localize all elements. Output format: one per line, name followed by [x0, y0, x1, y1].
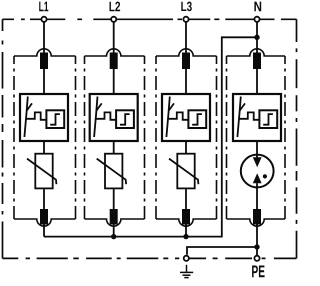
- gas discharge tube N-PE circle: [241, 155, 274, 188]
- module N box right side: [284, 56, 286, 219]
- varistor L3 diagonal: [169, 159, 198, 185]
- label L1: [39, 2, 48, 12]
- module L1 box bottom edge with socket bowl: [14, 219, 76, 226]
- switching characteristic step: [192, 114, 202, 125]
- GDT gas dot: [263, 174, 267, 178]
- L1 bottom plug contact pin: [40, 209, 48, 225]
- wire N terminal down through junction to top contact: [256, 22, 258, 54]
- wire L1 terminal to top contact: [43, 22, 45, 54]
- N top plug contact pin: [253, 53, 261, 70]
- spark gap electrode line: [94, 97, 97, 138]
- module L1 box left side: [13, 56, 15, 219]
- wire spark gap to varistor: [43, 141, 45, 154]
- switching characteristic step: [50, 114, 60, 125]
- module L2 box bottom edge with socket bowl: [85, 219, 145, 226]
- enclosure border (dash-dot outline of device): [3, 19, 297, 258]
- wire L1 bottom pin to bus: [43, 225, 45, 237]
- spark gap electrode line: [166, 97, 169, 138]
- module L3 box bottom edge with socket bowl: [156, 219, 217, 226]
- trigger tick: [169, 103, 174, 110]
- L3 top plug contact pin: [182, 53, 190, 70]
- junction dot L3 on bus: [183, 234, 188, 239]
- label L3: [181, 2, 192, 12]
- wire varistor to bottom contact: [185, 188, 187, 209]
- varistor L2 body: [105, 154, 122, 189]
- varistor L2 diagonal: [97, 159, 126, 185]
- varistor L1 body: [35, 154, 52, 189]
- N bottom plug contact pin: [253, 209, 261, 225]
- bottom bus L1-L3 to N riser: [44, 37, 257, 236]
- wire varistor to bottom contact: [43, 188, 45, 209]
- trigger pulse waveform: [168, 112, 188, 119]
- terminal circle L1: [41, 17, 46, 22]
- trigger pulse waveform: [239, 112, 259, 119]
- module L3 box left side: [155, 56, 157, 219]
- L2 top plug contact pin: [110, 53, 118, 70]
- triggered spark gap box L2: [90, 94, 138, 141]
- spark gap electrode line: [237, 97, 240, 138]
- L1 top plug contact pin: [40, 53, 48, 70]
- switching characteristic step: [120, 114, 130, 125]
- L2 bottom plug contact pin: [110, 209, 118, 225]
- wire N bottom pin to PE junction: [256, 225, 258, 248]
- terminal circle N: [254, 17, 259, 22]
- label PE: [252, 266, 265, 278]
- module N box bottom edge with socket bowl: [227, 219, 286, 226]
- trigger pulse waveform: [96, 112, 116, 119]
- module L3 box top edge with socket dome: [156, 49, 217, 56]
- module L2 box right side: [144, 56, 146, 219]
- triggered spark gap box L3: [162, 94, 210, 141]
- GDT lower arrow: [253, 173, 262, 183]
- module L1 box right side: [75, 56, 77, 219]
- triggered spark gap box N: [233, 94, 281, 141]
- PE bus from earth terminal to PE junction: [187, 247, 257, 255]
- module L3 box right side: [216, 56, 218, 219]
- trigger electronics box: [116, 110, 134, 128]
- ground symbol: [180, 265, 193, 278]
- module N box left side: [226, 56, 228, 219]
- wire spark gap to varistor: [185, 141, 187, 154]
- wire pin to spark gap box: [43, 69, 45, 94]
- terminal circle PE: [254, 256, 259, 261]
- label L2: [110, 2, 121, 12]
- trigger tick: [96, 103, 101, 110]
- triggered spark gap box L1: [20, 94, 68, 141]
- wire L3 terminal to top contact: [185, 22, 187, 54]
- module L2 box top edge with socket dome: [85, 49, 145, 56]
- wire spark gap to varistor: [113, 141, 115, 154]
- module L1 box top edge with socket dome: [14, 49, 76, 56]
- wire pin to spark gap box: [113, 69, 115, 94]
- trigger tick: [27, 103, 32, 110]
- wire pin to spark gap box: [256, 69, 258, 94]
- trigger electronics box: [188, 110, 206, 128]
- varistor L1 diagonal: [27, 159, 56, 185]
- wire L2 terminal to top contact: [113, 22, 115, 54]
- terminal circle L3: [183, 17, 188, 22]
- trigger electronics box: [46, 110, 64, 128]
- L3 bottom plug contact pin: [182, 209, 190, 225]
- junction dot L2 on bus: [111, 234, 116, 239]
- wire PE junction to PE terminal: [256, 247, 258, 255]
- module L2 box left side: [84, 56, 86, 219]
- varistor L3 body: [177, 154, 194, 189]
- trigger tick: [240, 103, 245, 110]
- terminal circle earth: [184, 256, 189, 261]
- wire L3 bottom pin to bus: [185, 225, 187, 237]
- wire L2 bottom pin to bus: [113, 225, 115, 237]
- trigger electronics box: [259, 110, 277, 128]
- switching characteristic step: [263, 114, 273, 125]
- label N: [254, 2, 261, 12]
- GDT upper arrow: [253, 157, 262, 167]
- wire varistor to bottom contact: [113, 188, 115, 209]
- wire spark gap to gas discharge tube: [256, 141, 258, 158]
- wire pin to spark gap box: [185, 69, 187, 94]
- terminal circle L2: [111, 17, 116, 22]
- module N box top edge with socket dome: [227, 49, 286, 56]
- wire gas discharge tube to bottom contact: [256, 183, 258, 209]
- junction dot at N below terminal: [254, 35, 259, 40]
- trigger pulse waveform: [26, 112, 46, 119]
- spark gap electrode line: [24, 97, 27, 138]
- junction dot PE: [254, 244, 259, 249]
